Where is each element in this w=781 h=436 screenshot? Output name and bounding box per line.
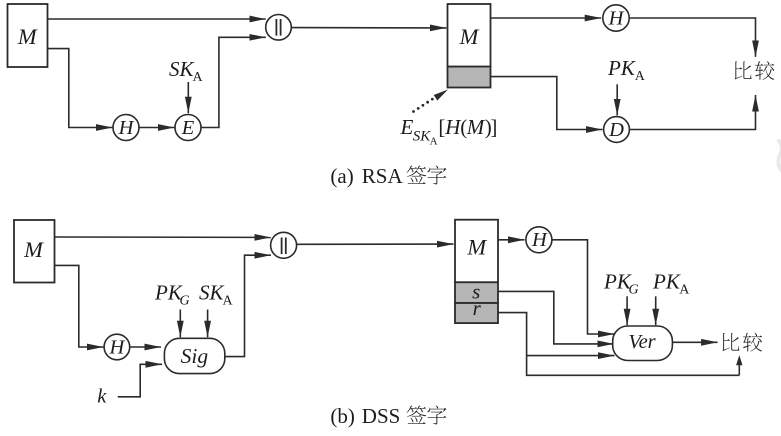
svg-text:M: M: [466, 115, 486, 139]
svg-text:H: H: [118, 117, 135, 139]
svg-text:PK: PK: [607, 56, 636, 80]
svg-text:E: E: [400, 115, 414, 139]
svg-text:DSS: DSS: [362, 404, 401, 428]
svg-text:]: ]: [490, 115, 497, 139]
svg-text:A: A: [223, 294, 234, 309]
svg-text:H: H: [108, 337, 125, 359]
svg-text:M: M: [459, 24, 480, 49]
svg-text:A: A: [635, 69, 646, 84]
svg-text:k: k: [97, 385, 107, 407]
svg-text:(a): (a): [330, 164, 353, 188]
svg-text:SK: SK: [413, 129, 432, 145]
svg-text:A: A: [193, 70, 204, 85]
svg-text:Sig: Sig: [181, 344, 209, 368]
svg-text:r: r: [473, 296, 482, 320]
svg-text:(b): (b): [330, 404, 355, 428]
svg-text:PK: PK: [603, 270, 632, 294]
svg-text:SK: SK: [199, 281, 225, 305]
svg-text:H: H: [608, 8, 625, 30]
svg-text:M: M: [466, 235, 487, 260]
svg-text:G: G: [180, 294, 190, 309]
svg-text:E: E: [181, 117, 195, 139]
svg-text:G: G: [629, 283, 639, 298]
svg-text:D: D: [608, 119, 624, 141]
svg-text:M: M: [23, 237, 44, 262]
svg-text:A: A: [679, 283, 690, 298]
svg-text:A: A: [430, 136, 438, 148]
svg-text:H: H: [531, 229, 548, 251]
svg-text:RSA: RSA: [362, 164, 404, 188]
svg-text:PK: PK: [652, 270, 681, 294]
svg-text:M: M: [17, 24, 38, 49]
svg-text:Ver: Ver: [628, 331, 656, 353]
svg-text:SK: SK: [169, 57, 195, 81]
svg-text:PK: PK: [154, 281, 183, 305]
